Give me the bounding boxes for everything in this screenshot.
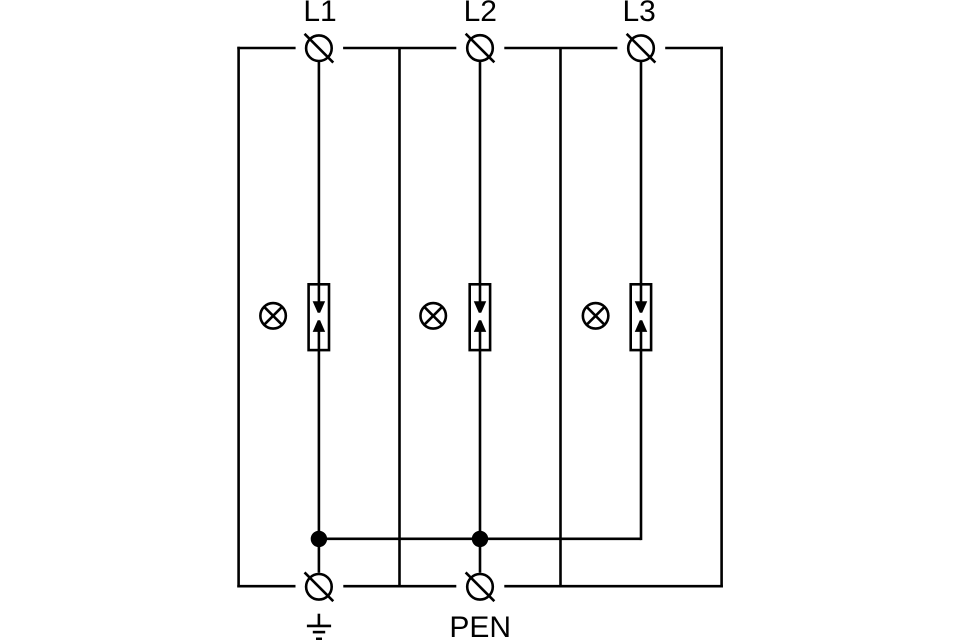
- wire top edge segment 2: [343, 47, 456, 50]
- wire L3 column upper: [640, 62, 643, 303]
- terminal PEN: [466, 572, 495, 601]
- svg-text:L1: L1: [303, 0, 336, 28]
- wire L2 column upper: [479, 62, 482, 303]
- enclosure right edge: [720, 47, 723, 588]
- wire bottom edge segment 1: [237, 585, 295, 588]
- indicator lamp 1: [260, 303, 286, 329]
- internal divider wire 2: [559, 48, 562, 586]
- indicator lamp 3: [583, 303, 609, 329]
- terminal PE (earth): [305, 572, 334, 601]
- surge arrester F1 (spark gap): [309, 284, 329, 350]
- wire top edge segment 1: [237, 47, 295, 50]
- wire L3 column lower: [640, 331, 643, 540]
- svg-text:L2: L2: [464, 0, 497, 28]
- wire L1 column upper: [318, 62, 321, 303]
- internal divider wire 1: [398, 48, 401, 586]
- wire bottom edge segment 3: [504, 585, 723, 588]
- terminal L1: [305, 34, 334, 63]
- surge arrester F3 (spark gap): [631, 284, 651, 350]
- wire top edge segment 4: [665, 47, 723, 50]
- junction dot L1/PE: [311, 531, 327, 547]
- indicator lamp 2: [420, 303, 446, 329]
- wire L2 column lower: [479, 331, 482, 573]
- wire L1 column lower: [318, 331, 321, 573]
- wire top edge segment 3: [504, 47, 617, 50]
- svg-text:L3: L3: [623, 0, 656, 28]
- junction dot L2/PEN: [472, 531, 488, 547]
- terminal L3: [627, 34, 656, 63]
- svg-text:PEN: PEN: [449, 611, 511, 640]
- ground symbol: [307, 614, 331, 639]
- wire bottom edge segment 2: [343, 585, 456, 588]
- enclosure left edge: [237, 47, 240, 588]
- wire PEN bus: [319, 537, 641, 540]
- surge arrester F2 (spark gap): [470, 284, 490, 350]
- terminal L2: [466, 34, 495, 63]
